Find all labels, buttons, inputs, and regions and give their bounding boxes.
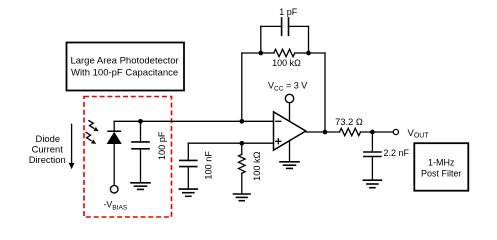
ground (100 pF capacitor) (131, 183, 150, 190)
minus pin marker (276, 120, 281, 122)
output terminal VOUT (393, 128, 429, 140)
light arrow 1 (89, 121, 94, 129)
bias terminal -VBIAS (104, 185, 128, 211)
junction: 100 pF branch on inverting net (138, 119, 143, 124)
svg-text:1 pF: 1 pF (279, 7, 298, 17)
wire: Vcc stem (289, 103, 291, 122)
wire: op-amp output (306, 131, 340, 133)
ground (bias resistor) (234, 194, 251, 201)
wire: inverting input net (photodiode to op-amp minus) (114, 120, 273, 122)
op-amp U1 (274, 112, 306, 150)
svg-text:With 100-pF Capacitance: With 100-pF Capacitance (71, 67, 178, 78)
svg-text:100 kΩ: 100 kΩ (252, 151, 262, 180)
capacitor CF 1 pF (feedback loop) (261, 18, 309, 53)
svg-text:100 kΩ: 100 kΩ (272, 58, 301, 68)
junction: capacitor loop right (306, 51, 311, 56)
capacitor 100 pF (132, 121, 149, 183)
photodiode D1 (86, 121, 122, 186)
svg-text:Post Filter: Post Filter (421, 169, 462, 179)
svg-text:VCC = 3 V: VCC = 3 V (268, 81, 307, 93)
wire: diode top lead (113, 121, 115, 131)
ground (100 nF capacitor) (179, 189, 197, 196)
capacitor 100 nF (180, 143, 197, 189)
svg-text:-VBIAS: -VBIAS (104, 199, 128, 211)
wire: feedback left vertical (241, 53, 243, 121)
junction: feedback to output (323, 130, 328, 135)
Vcc supply terminal (268, 81, 307, 122)
resistor RF 100 kOhm (feedback) (261, 49, 309, 56)
photodiode enclosure (red dashed box) (84, 97, 172, 218)
annotation box: 1-MHz Post Filter (414, 143, 468, 191)
annotation box: Large Area Photodetector With 100-pF Capacitance (67, 43, 185, 91)
svg-text:100 nF: 100 nF (204, 151, 214, 180)
plus pin marker (276, 140, 281, 142)
junction: feedback tap on inverting net (239, 119, 244, 124)
svg-text:Direction: Direction (29, 154, 66, 165)
junction: post filter cap tap (370, 130, 375, 135)
svg-text:Current: Current (32, 143, 64, 154)
svg-text:VOUT: VOUT (408, 128, 430, 140)
cathode bar (108, 130, 120, 132)
junction: capacitor loop left (258, 51, 263, 56)
annotation: Diode Current Direction (29, 133, 66, 165)
resistor 100 kOhm (non-inverting bias) (239, 143, 246, 194)
capacitor 2.2 nF (364, 132, 381, 180)
wire: non-inverting input net (188, 142, 273, 144)
diode current direction arrow (69, 124, 75, 169)
junction: bias resistor tap on non-inverting net (239, 141, 244, 146)
svg-text:73.2 Ω: 73.2 Ω (335, 117, 363, 127)
light arrow 2 (86, 132, 91, 140)
wire: feedback horizontal (resistor row) (242, 52, 261, 54)
svg-text:100 pF: 100 pF (157, 131, 167, 160)
resistor 73.2 Ohm (340, 128, 394, 135)
anode triangle (107, 132, 122, 144)
wire: feedback right vertical (324, 53, 326, 132)
svg-text:2.2 nF: 2.2 nF (384, 148, 410, 158)
ground (2.2 nF capacitor) (363, 180, 381, 188)
svg-text:1-MHz: 1-MHz (428, 157, 455, 167)
ground (op-amp) (280, 141, 299, 169)
svg-text:Large Area Photodetector: Large Area Photodetector (70, 56, 178, 67)
wire: diode bottom lead (113, 144, 115, 185)
